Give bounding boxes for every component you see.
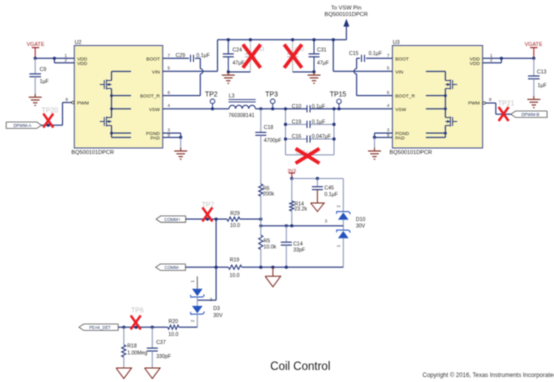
svg-text:C37: C37 xyxy=(156,340,166,346)
svg-text:C9: C9 xyxy=(40,67,47,73)
svg-text:PAD: PAD xyxy=(395,136,405,142)
svg-text:6: 6 xyxy=(168,90,171,95)
svg-text:L3: L3 xyxy=(229,94,235,100)
svg-text:C16: C16 xyxy=(292,134,302,140)
svg-text:30V: 30V xyxy=(213,313,223,319)
svg-text:VSW: VSW xyxy=(395,107,406,113)
svg-text:C13: C13 xyxy=(537,70,547,76)
svg-text:Copyright © 2016, Texas Instru: Copyright © 2016, Texas Instruments Inco… xyxy=(423,372,554,379)
svg-text:4700pF: 4700pF xyxy=(264,138,282,144)
svg-text:PWM: PWM xyxy=(468,101,480,107)
svg-text:BOOT_R: BOOT_R xyxy=(395,94,415,100)
svg-text:7: 7 xyxy=(387,53,390,58)
svg-text:C18: C18 xyxy=(264,125,274,131)
svg-text:R19: R19 xyxy=(230,257,240,263)
svg-text:TP2: TP2 xyxy=(205,92,218,99)
svg-text:TP3: TP3 xyxy=(265,92,278,99)
svg-text:0.1µF: 0.1µF xyxy=(196,53,209,59)
svg-text:1µF: 1µF xyxy=(40,79,49,85)
svg-text:BQ500101DPCR: BQ500101DPCR xyxy=(325,12,368,18)
svg-text:10.0: 10.0 xyxy=(168,332,178,338)
svg-text:TP21: TP21 xyxy=(498,100,515,107)
svg-text:VSW: VSW xyxy=(149,107,160,113)
svg-text:760308141: 760308141 xyxy=(229,113,255,119)
svg-text:VIN: VIN xyxy=(152,69,161,75)
svg-text:10.0: 10.0 xyxy=(229,273,239,279)
svg-text:PEAK_DET: PEAK_DET xyxy=(89,325,111,330)
svg-text:1µF: 1µF xyxy=(538,83,547,89)
svg-text:COMM-: COMM- xyxy=(164,265,180,270)
svg-text:D10: D10 xyxy=(356,217,366,223)
svg-text:C15: C15 xyxy=(349,51,359,57)
svg-text:COMM+: COMM+ xyxy=(164,217,181,222)
svg-text:33pF: 33pF xyxy=(293,248,305,254)
svg-text:C19: C19 xyxy=(292,120,302,126)
svg-text:23.2k: 23.2k xyxy=(294,206,307,212)
svg-text:BOOT: BOOT xyxy=(395,56,409,62)
svg-text:2: 2 xyxy=(336,204,341,207)
svg-text:0.1µF: 0.1µF xyxy=(369,51,382,57)
svg-text:1: 1 xyxy=(336,244,341,247)
svg-text:DPWM-B: DPWM-B xyxy=(521,112,539,117)
svg-text:C31: C31 xyxy=(317,47,327,53)
svg-text:5: 5 xyxy=(168,66,171,71)
svg-text:200k: 200k xyxy=(263,191,275,197)
svg-text:0.1µF: 0.1µF xyxy=(324,192,337,198)
svg-text:1: 1 xyxy=(190,280,195,283)
svg-text:C10: C10 xyxy=(292,104,302,110)
svg-text:0.1µF: 0.1µF xyxy=(312,120,325,126)
svg-text:R20: R20 xyxy=(169,319,179,325)
svg-text:U3: U3 xyxy=(393,40,400,46)
svg-text:R29: R29 xyxy=(230,211,240,217)
svg-text:8: 8 xyxy=(489,97,492,102)
svg-text:BOOT: BOOT xyxy=(146,56,160,62)
svg-text:6: 6 xyxy=(387,90,390,95)
svg-text:8: 8 xyxy=(65,97,68,102)
svg-text:U2: U2 xyxy=(75,40,82,46)
svg-text:5: 5 xyxy=(387,66,390,71)
svg-text:PAD: PAD xyxy=(150,136,160,142)
svg-text:BOOT_R: BOOT_R xyxy=(140,94,160,100)
svg-text:10.0: 10.0 xyxy=(230,223,240,229)
svg-text:To VSW Pin: To VSW Pin xyxy=(331,6,361,12)
svg-text:0.1µF: 0.1µF xyxy=(312,104,325,110)
svg-text:C29: C29 xyxy=(176,53,186,59)
svg-text:VDD: VDD xyxy=(77,61,88,67)
svg-text:2: 2 xyxy=(190,319,195,322)
svg-text:7: 7 xyxy=(168,53,171,58)
svg-text:D3: D3 xyxy=(213,306,220,312)
svg-text:R18: R18 xyxy=(127,344,137,350)
svg-text:3: 3 xyxy=(210,297,213,302)
svg-text:VIN: VIN xyxy=(395,69,404,75)
svg-text:47µF: 47µF xyxy=(317,61,329,67)
svg-text:30V: 30V xyxy=(356,223,366,229)
svg-text:TP6: TP6 xyxy=(131,308,144,315)
svg-text:10.0k: 10.0k xyxy=(264,244,277,250)
svg-text:330pF: 330pF xyxy=(156,354,171,360)
svg-text:C14: C14 xyxy=(293,241,303,247)
svg-text:BQ500101DPCR: BQ500101DPCR xyxy=(71,150,114,156)
svg-text:VDD: VDD xyxy=(470,61,481,67)
svg-text:TP15: TP15 xyxy=(330,92,347,99)
svg-text:Coil Control: Coil Control xyxy=(270,361,330,373)
svg-text:C45: C45 xyxy=(324,185,334,191)
svg-text:BQ500101DPCR: BQ500101DPCR xyxy=(390,150,433,156)
svg-text:PWM: PWM xyxy=(77,101,89,107)
svg-text:4: 4 xyxy=(168,103,171,108)
svg-text:DPWM-A: DPWM-A xyxy=(13,123,31,128)
svg-text:3: 3 xyxy=(325,219,328,224)
svg-text:1.00Meg: 1.00Meg xyxy=(127,350,147,356)
svg-text:C24: C24 xyxy=(233,47,243,53)
svg-text:4: 4 xyxy=(387,103,390,108)
svg-text:0.047µF: 0.047µF xyxy=(312,134,331,140)
